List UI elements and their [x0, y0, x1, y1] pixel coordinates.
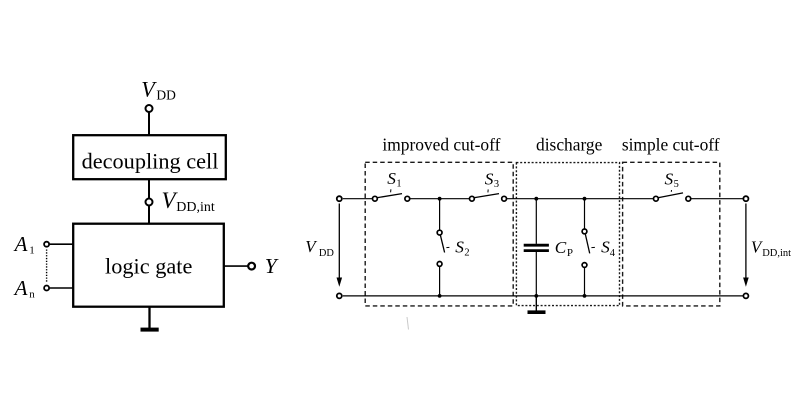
wire top rail segment 4 [691, 198, 743, 200]
svg-text:V: V [141, 77, 157, 102]
svg-text:S: S [485, 169, 494, 188]
svg-text:DD,int: DD,int [176, 200, 215, 215]
label VDD,int (right schematic) [751, 237, 791, 258]
label S1 [387, 169, 401, 192]
label VDD (right schematic) [305, 237, 334, 259]
label VDD,int [162, 188, 215, 215]
ellipsis dotted line A1 to An [46, 250, 48, 284]
svg-text:2: 2 [464, 248, 469, 259]
svg-text:S: S [665, 169, 674, 188]
junction node bottom of S4 branch [583, 294, 587, 298]
wire S4 branch upper [584, 199, 586, 229]
capacitor CP [524, 245, 549, 250]
svg-text:A: A [13, 276, 28, 300]
label S3 [485, 169, 499, 192]
label An [13, 276, 36, 301]
decoupling cell block [73, 135, 226, 179]
terminal VDD,int bottom [743, 293, 748, 298]
junction node top of S2 branch [438, 197, 442, 201]
svg-text:DD: DD [156, 87, 176, 102]
svg-text:3: 3 [494, 179, 499, 190]
junction node bottom of capacitor branch [534, 294, 538, 298]
svg-text:C: C [555, 238, 567, 257]
dashed box simple cut-off [623, 162, 720, 306]
junction node top of capacitor branch [534, 197, 538, 201]
node VDD terminal [146, 105, 153, 112]
svg-text:1: 1 [396, 179, 401, 190]
wire VDD to decoupling cell [148, 112, 150, 135]
svg-text:S: S [455, 238, 464, 257]
switch S3 [470, 194, 507, 202]
label A1 [13, 232, 35, 257]
switch S4 [582, 229, 590, 267]
ground (capacitor) [528, 296, 546, 314]
svg-text:discharge: discharge [536, 134, 603, 154]
svg-text:Y: Y [265, 254, 279, 278]
arrow VDD [337, 204, 343, 287]
wire capacitor branch lower [535, 252, 537, 296]
input A1 wire and terminal [44, 242, 73, 247]
faint scan artifact [407, 317, 409, 330]
svg-text:n: n [29, 289, 35, 301]
svg-text:S: S [387, 169, 396, 188]
switch S5 [654, 193, 691, 201]
junction node bottom of S2 branch [438, 294, 442, 298]
ground (logic gate) [141, 307, 159, 332]
label S5 [665, 169, 679, 192]
wire top rail segment 2 [410, 198, 469, 200]
label CP [555, 238, 573, 259]
node VDD,int terminal [146, 199, 153, 206]
arrow VDD,int [743, 204, 749, 287]
terminal VDD,int top [743, 196, 748, 201]
wire decoupling cell to logic gate [148, 179, 150, 224]
output Y wire and terminal [225, 263, 256, 270]
wire S2 branch upper [439, 199, 441, 231]
wire bottom rail [343, 295, 743, 297]
wire S4 branch lower [584, 267, 586, 296]
terminal VDD bottom [337, 293, 342, 298]
dashed box improved cut-off [365, 162, 513, 306]
svg-text:5: 5 [674, 179, 679, 190]
svg-text:simple cut-off: simple cut-off [622, 134, 720, 154]
junction node top of S4 branch [583, 197, 587, 201]
label VDD [141, 77, 176, 103]
wire S2 branch lower [439, 266, 441, 296]
svg-text:4: 4 [610, 248, 616, 259]
wire top rail segment 3 [507, 198, 653, 200]
wire capacitor branch upper [535, 199, 537, 244]
dotted box discharge [516, 163, 619, 306]
input An wire and terminal [44, 286, 73, 291]
logic gate block [73, 224, 224, 307]
svg-text:1: 1 [29, 245, 35, 257]
svg-text:DD,int: DD,int [762, 248, 791, 259]
svg-text:P: P [567, 247, 573, 259]
svg-text:DD: DD [319, 248, 335, 259]
label S4 [591, 238, 615, 260]
terminal VDD top [337, 196, 342, 201]
label S2 [446, 238, 469, 259]
switch S2 [437, 230, 444, 266]
svg-text:improved cut-off: improved cut-off [382, 134, 500, 154]
svg-text:decoupling cell: decoupling cell [82, 149, 219, 174]
svg-text:V: V [305, 237, 318, 256]
svg-text:A: A [13, 232, 28, 256]
svg-text:logic gate: logic gate [105, 254, 192, 279]
switch S1 [373, 194, 410, 202]
wire top rail segment 1 [343, 198, 372, 200]
